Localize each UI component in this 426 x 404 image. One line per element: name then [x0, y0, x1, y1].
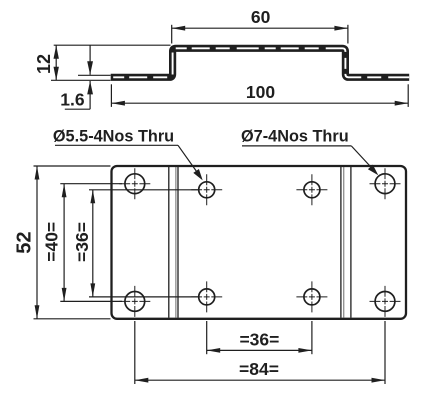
svg-text:100: 100 [246, 82, 275, 102]
svg-text:Ø7-4Nos Thru: Ø7-4Nos Thru [241, 128, 349, 146]
svg-text:=40=: =40= [42, 222, 62, 262]
svg-text:=36=: =36= [239, 330, 279, 350]
svg-text:60: 60 [251, 7, 271, 27]
svg-text:Ø5.5-4Nos Thru: Ø5.5-4Nos Thru [53, 127, 174, 145]
svg-text:52: 52 [14, 231, 36, 253]
svg-text:1.6: 1.6 [60, 90, 85, 110]
svg-text:12: 12 [34, 54, 54, 74]
svg-text:=84=: =84= [239, 359, 279, 379]
svg-text:=36=: =36= [72, 222, 92, 262]
